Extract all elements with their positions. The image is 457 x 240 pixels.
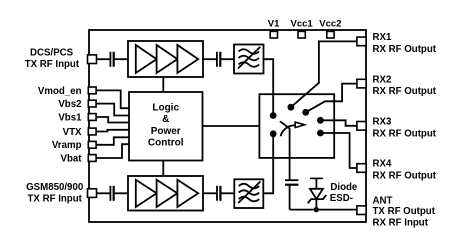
svg-text:VTX: VTX <box>63 127 82 138</box>
pin ANT <box>357 196 436 229</box>
wire Vbs2 to logic <box>96 104 129 116</box>
label Diode ESD- <box>330 182 358 204</box>
svg-text:Vmod_en: Vmod_en <box>38 86 82 97</box>
wire Vbat to logic <box>96 144 129 158</box>
capacitor C1 (DCS input DC block) <box>110 52 113 67</box>
wire RX2 to switch pole D <box>306 84 357 113</box>
svg-text:Power: Power <box>151 126 181 137</box>
wire GSM port to C3 <box>97 192 110 194</box>
switch pole E (RX3) <box>317 117 324 124</box>
switch pole F (RX4) <box>317 130 324 137</box>
wire cap to ANT line <box>289 185 291 210</box>
capacitor antenna series <box>285 180 298 185</box>
svg-text:RX RF Input: RX RF Input <box>373 218 429 229</box>
svg-text:V1: V1 <box>268 19 280 30</box>
svg-text:TX RF Output: TX RF Output <box>373 206 436 217</box>
svg-text:RX3: RX3 <box>373 117 392 128</box>
pin RX4 <box>357 159 437 182</box>
svg-text:RX2: RX2 <box>373 74 392 85</box>
diode ESD (TVS to ANT) <box>308 178 327 208</box>
svg-text:Logic: Logic <box>152 102 179 113</box>
pin Vbat <box>61 153 97 164</box>
amplifier DCS/PCS PA (3-stage) <box>128 41 203 77</box>
amplifier GSM850/900 PA (3-stage) <box>128 176 203 211</box>
wire DCS filter to switch pole A <box>264 59 274 112</box>
wire DCS PA to logic <box>162 77 164 92</box>
svg-text:GSM850/900: GSM850/900 <box>26 182 83 193</box>
pin Vmod_en <box>38 86 96 97</box>
switch pole D (RX2) <box>302 109 309 116</box>
svg-text:TX RF Input: TX RF Input <box>28 193 83 204</box>
pin RX1 <box>357 32 437 55</box>
pin Vcc2 <box>319 19 341 38</box>
svg-text:Vramp: Vramp <box>52 140 82 151</box>
wire C3 to GSM PA <box>115 192 128 194</box>
svg-text:&: & <box>162 114 169 125</box>
svg-text:Diode: Diode <box>330 182 358 193</box>
capacitor C4 (GSM output DC block) <box>217 186 220 201</box>
wire DCS port to C1 <box>97 58 110 60</box>
svg-text:Control: Control <box>148 138 184 149</box>
svg-text:Vbs2: Vbs2 <box>58 99 81 110</box>
wire C2 to DCS filter <box>221 58 234 60</box>
svg-text:RX RF Output: RX RF Output <box>373 44 437 55</box>
svg-text:TX RF Input: TX RF Input <box>25 59 80 70</box>
wire C1 to DCS PA <box>115 58 128 60</box>
svg-text:Vcc1: Vcc1 <box>291 19 314 30</box>
wire logic to GSM PA <box>162 161 164 177</box>
wire Vbs1 to logic <box>96 117 129 123</box>
filter GSM low-pass <box>234 179 263 208</box>
wire logic to switch <box>203 125 260 127</box>
svg-text:RX1: RX1 <box>373 32 392 43</box>
wire switch pole F to RX4 <box>320 133 356 168</box>
switch box <box>259 94 334 158</box>
wire ANT line <box>290 209 357 211</box>
svg-text:Vbat: Vbat <box>61 153 83 164</box>
wire GSM PA to C4 <box>203 192 216 194</box>
pin V1 <box>268 19 280 38</box>
svg-text:ESD-: ESD- <box>330 193 353 204</box>
capacitor C2 (DCS output DC block) <box>217 52 220 67</box>
svg-text:RX4: RX4 <box>373 159 392 170</box>
wire RX1 to switch pole B <box>291 41 357 107</box>
port GSM850/900 TX RF Input <box>26 182 96 204</box>
module outline box <box>89 30 366 222</box>
filter DCS low-pass <box>234 45 264 74</box>
svg-text:DCS/PCS: DCS/PCS <box>30 48 74 59</box>
pin Vcc1 <box>291 19 314 38</box>
switch pole A (DCS TX) <box>270 112 277 119</box>
wire GSM filter to switch pole C <box>263 137 273 194</box>
svg-text:RX RF Output: RX RF Output <box>373 171 437 182</box>
junction ANT node <box>314 207 319 212</box>
capacitor C3 (GSM input DC block) <box>110 186 113 201</box>
port DCS/PCS TX RF Input <box>25 48 97 71</box>
svg-text:RX RF Output: RX RF Output <box>373 128 437 139</box>
svg-text:RX RF Output: RX RF Output <box>373 86 437 97</box>
wire VTX to logic <box>96 130 129 132</box>
wire switch pole E to RX3 <box>320 120 356 126</box>
wire Vmod_en to logic <box>96 90 129 108</box>
pin Vramp <box>52 140 96 151</box>
wire Vramp to logic <box>96 137 129 145</box>
pin Vbs1 <box>58 112 96 123</box>
pin RX2 <box>357 74 437 97</box>
wire DCS PA to C2 <box>203 58 216 60</box>
wire wiper to antenna cap <box>289 128 291 180</box>
pin RX3 <box>357 117 437 140</box>
pin Vbs2 <box>58 99 96 110</box>
pin VTX <box>63 127 96 138</box>
logic and power control block <box>129 92 203 161</box>
wire C4 to GSM filter <box>221 192 234 194</box>
switch pole C (GSM TX) <box>270 130 277 137</box>
svg-text:Vcc2: Vcc2 <box>319 19 341 30</box>
svg-text:Vbs1: Vbs1 <box>58 112 82 123</box>
svg-text:ANT: ANT <box>373 196 393 207</box>
switch wiper arm <box>280 121 305 136</box>
switch pole B (RX1) <box>288 104 295 111</box>
